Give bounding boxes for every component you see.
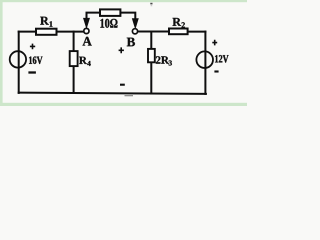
green border bottom [0, 103, 247, 106]
wire R4 branch vertical [73, 32, 75, 93]
resistor R1 [36, 29, 57, 35]
label R4 [79, 57, 91, 66]
scan artifact dot top [150, 3, 152, 5]
resistor R4 [70, 51, 78, 66]
node A [84, 28, 89, 33]
source 12V circle [196, 51, 213, 68]
label 16V [29, 57, 42, 64]
label R2 [173, 18, 185, 28]
wire left vertical [18, 32, 20, 93]
label 2R3 [156, 56, 172, 65]
wire R1 to node A [57, 31, 84, 33]
label B [127, 38, 135, 47]
label A [83, 37, 92, 46]
green border left [0, 0, 3, 106]
minus of 12V [214, 70, 218, 72]
minus mark middle [120, 84, 125, 86]
label 10ohm [100, 19, 117, 28]
scan artifact dash bottom [125, 95, 134, 96]
plus of 12V [212, 40, 217, 46]
wire top-left segment [19, 31, 36, 33]
arrow into node A [84, 18, 90, 28]
plus of 16V [30, 44, 35, 50]
wire R2 to top-right corner [188, 31, 206, 33]
minus of 16V [28, 71, 36, 73]
plus mark middle [119, 47, 124, 53]
wire right vertical [204, 32, 206, 94]
scan artifact faint dash [151, 4, 153, 7]
arrow into node B [132, 19, 138, 29]
resistor R2 [169, 29, 188, 35]
resistor 10ohm [100, 9, 120, 16]
label 12V [215, 55, 228, 62]
source 16V circle [10, 51, 26, 67]
node B [132, 29, 137, 34]
green border top [0, 0, 247, 2]
resistor 2R3 [148, 49, 155, 62]
page background [0, 0, 247, 106]
label R1 [40, 17, 52, 27]
wire 2R3 branch vertical [150, 32, 152, 93]
wire node B to R2 [138, 31, 169, 33]
wire bottom [19, 93, 206, 94]
wire 10ohm bridge [87, 13, 136, 20]
